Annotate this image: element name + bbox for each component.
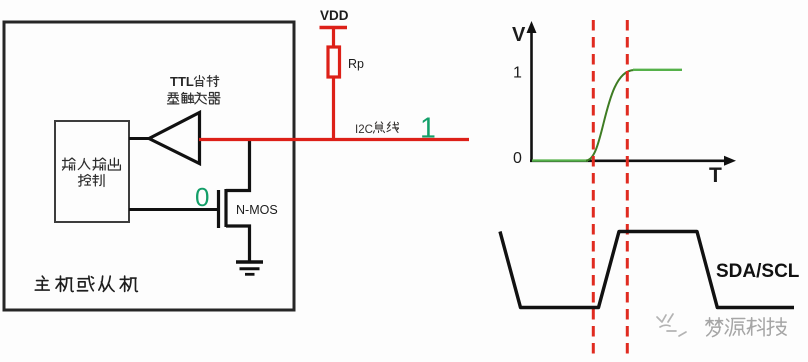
主 — [35, 276, 49, 290]
T axis (horizontal) — [530, 156, 736, 166]
肖 — [194, 75, 204, 86]
发 — [195, 92, 206, 103]
svg-text:1: 1 — [513, 65, 522, 82]
线 — [387, 122, 399, 133]
label 输入输出控制 — [63, 158, 121, 186]
gate bar — [217, 190, 220, 228]
watermark 梦源科技 — [706, 318, 786, 337]
signal high segment (green) — [633, 69, 682, 71]
red dashed threshold line 1 — [592, 20, 595, 356]
入 — [78, 159, 90, 170]
svg-text:1: 1 — [420, 113, 436, 145]
技 — [767, 318, 786, 336]
buffer U1 (TTL Schmitt trigger, input from bus) — [149, 113, 200, 164]
signal rise S-curve (dark green) — [586, 70, 634, 161]
svg-text:N-MOS: N-MOS — [236, 203, 278, 217]
V axis (vertical) — [527, 21, 537, 162]
svg-text:V: V — [512, 24, 526, 46]
source lead — [226, 226, 250, 261]
梦 — [706, 318, 723, 337]
机 — [56, 276, 73, 291]
device box (master-or-slave enclosure) — [4, 22, 294, 310]
I2C bus (red) — [199, 138, 469, 141]
从 — [99, 276, 114, 291]
特 — [207, 75, 219, 86]
触 — [182, 92, 194, 102]
制 — [92, 174, 104, 186]
svg-text:I2C: I2C — [355, 124, 373, 136]
svg-text:T: T — [709, 164, 722, 187]
源 — [725, 318, 745, 335]
出 — [108, 158, 120, 170]
总 — [373, 122, 384, 133]
drain lead — [226, 141, 250, 191]
red dashed threshold line 2 — [626, 20, 629, 356]
ground — [236, 262, 263, 274]
基 — [167, 93, 178, 104]
wire: VDD bar to resistor — [332, 28, 335, 48]
svg-text:Rp: Rp — [348, 57, 364, 71]
svg-text:0: 0 — [513, 150, 522, 167]
channel bar — [224, 189, 227, 227]
控 — [78, 174, 90, 186]
svg-text:0: 0 — [195, 182, 209, 212]
label I2C总线 — [355, 122, 398, 136]
label TTL肖特基触发器 — [167, 74, 220, 104]
SDA/SCL waveform — [500, 232, 794, 308]
wire: resistor to bus — [332, 77, 335, 141]
IO control block — [55, 121, 129, 222]
wire: IO control to N-MOS gate — [129, 208, 217, 211]
label 主机或从机 — [35, 276, 137, 291]
VDD power symbol — [320, 8, 349, 28]
watermark logo mark — [657, 314, 686, 336]
机 — [120, 276, 137, 291]
svg-text:VDD: VDD — [320, 8, 349, 23]
输 — [63, 158, 76, 170]
resistor Rp — [328, 47, 340, 77]
器 — [209, 92, 220, 103]
transistor Q1 N-MOS — [219, 141, 250, 262]
输 — [93, 158, 106, 170]
科 — [747, 318, 764, 336]
或 — [77, 276, 94, 291]
wire: IO control to buffer input — [129, 137, 150, 140]
svg-text:TTL: TTL — [170, 74, 194, 89]
svg-text:SDA/SCL: SDA/SCL — [716, 261, 800, 282]
signal low segment (green, on axis) — [532, 159, 588, 161]
